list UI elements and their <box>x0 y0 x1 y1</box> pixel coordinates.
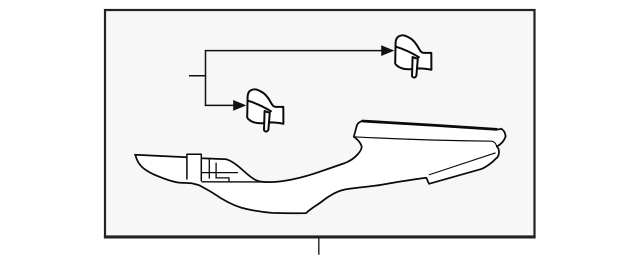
mounting tab <box>187 154 201 181</box>
callout bracket stem <box>189 75 206 77</box>
diagram frame box <box>105 10 535 237</box>
arrowhead to clip B <box>233 100 246 111</box>
bottom tick mark <box>318 237 320 255</box>
frame bottom edge (thicker) <box>104 236 536 239</box>
clip B front edge <box>248 101 271 112</box>
leader line to clip A <box>205 50 382 52</box>
clip B hanging plate <box>264 111 270 132</box>
panel detail: L-shaped rib <box>216 163 229 182</box>
windshield flange top edge (thick) <box>362 121 497 129</box>
clip B (lower) body <box>247 89 283 131</box>
clip A hanging plate <box>412 57 418 78</box>
panel detail: lower horizontal rib <box>201 181 270 183</box>
arrowhead to clip A <box>381 45 394 56</box>
flange lower band line <box>354 137 497 147</box>
panel detail: vertical rib <box>208 159 210 179</box>
lower edge strip line <box>429 153 496 175</box>
panel detail: middle horizontal rib <box>201 172 238 174</box>
trim panel outline <box>135 121 506 213</box>
leader line to clip B <box>205 104 235 106</box>
clip A (upper) body <box>395 35 431 77</box>
callout bracket vertical <box>205 51 207 106</box>
clip A front edge <box>396 47 419 58</box>
